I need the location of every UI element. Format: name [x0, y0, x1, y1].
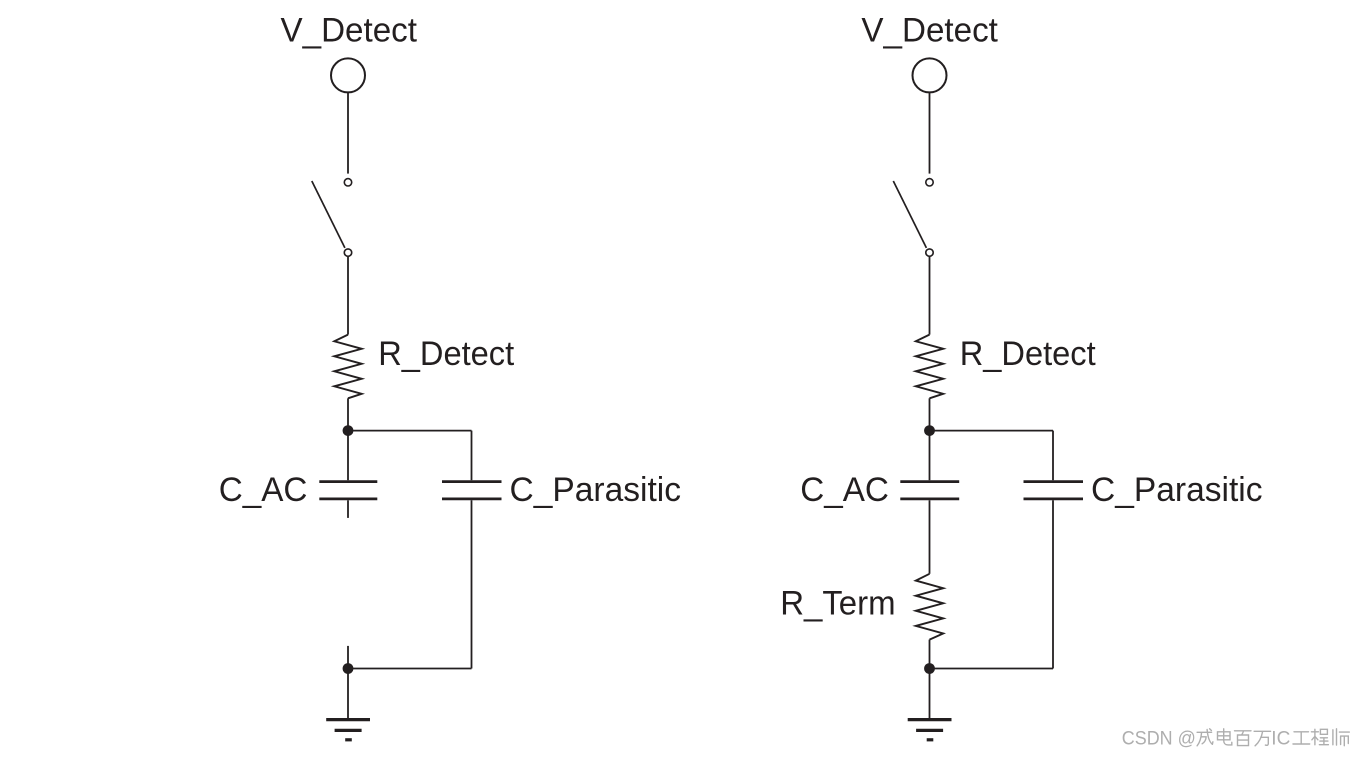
capacitor C_AC (right) [900, 480, 959, 483]
voltage source terminal circle (right) [913, 58, 947, 92]
wire C_AC to R_Term (right) [929, 500, 931, 574]
wire parasitic branch down, vertical (left) [471, 500, 473, 668]
wire switch to resistor (left) [347, 257, 349, 335]
svg-text:C_Parasitic: C_Parasitic [510, 471, 682, 509]
glyph gong1 [1293, 732, 1310, 744]
capacitor C_Parasitic (right) [1024, 480, 1084, 483]
ground (left) [326, 720, 370, 740]
wire bottom horizontal (left) [348, 668, 472, 670]
wire parasitic branch down, vertical (right) [1052, 500, 1054, 668]
switch upper contact (left) [344, 179, 351, 186]
capacitor C_Parasitic (left) [442, 480, 502, 483]
switch upper contact (right) [926, 179, 933, 186]
wire node down to C_AC (left) [347, 431, 349, 481]
wire stub below C_AC (left) [347, 500, 349, 518]
svg-text:C_Parasitic: C_Parasitic [1091, 471, 1263, 509]
ground (right) [908, 720, 952, 740]
voltage source terminal circle (left) [331, 58, 365, 92]
resistor R_Detect (left) [334, 335, 361, 399]
switch lower contact (left) [344, 249, 351, 256]
junction dot bottom (right) [924, 663, 935, 674]
glyph bai3 [1235, 731, 1252, 746]
svg-text:C_AC: C_AC [219, 471, 308, 509]
resistor R_Term (right) [916, 574, 943, 640]
wire node down to C_AC (right) [929, 431, 931, 481]
switch blade (right) [893, 181, 926, 248]
junction dot top (left) [343, 425, 354, 436]
svg-text:IC: IC [1271, 729, 1290, 750]
wire bottom horizontal (right) [930, 668, 1054, 670]
wire node to ground (right) [929, 669, 931, 720]
svg-text:V_Detect: V_Detect [281, 12, 418, 50]
glyph cheng2b [1311, 729, 1328, 745]
glyph wan4 [1254, 731, 1271, 746]
glyph dian4 [1218, 729, 1232, 745]
svg-text:R_Term: R_Term [780, 585, 895, 623]
switch lower contact (right) [926, 249, 933, 256]
svg-text:CSDN @: CSDN @ [1122, 729, 1196, 750]
wire terminal to switch (right) [929, 93, 931, 174]
resistor R_Detect (right) [916, 335, 943, 399]
wire R_Term to bottom node (right) [929, 640, 931, 669]
wire node to parasitic branch, horizontal (right) [930, 430, 1054, 432]
wire stub above bottom node (left) [347, 646, 349, 669]
watermark CJK glyphs (drawn) [1197, 729, 1349, 746]
wire resistor to node (right) [929, 398, 931, 431]
svg-text:R_Detect: R_Detect [960, 335, 1097, 373]
wire terminal to switch (left) [347, 93, 349, 174]
wire parasitic branch down to cap (right) [1052, 431, 1054, 481]
junction dot top (right) [924, 425, 935, 436]
junction dot bottom (left) [343, 663, 354, 674]
svg-text:R_Detect: R_Detect [378, 335, 515, 373]
svg-text:V_Detect: V_Detect [861, 12, 998, 50]
wire parasitic branch down to cap (left) [471, 431, 473, 481]
svg-text:C_AC: C_AC [800, 471, 889, 509]
capacitor C_AC (left) [319, 480, 377, 483]
switch blade (left) [312, 181, 345, 248]
wire resistor to node (left) [347, 398, 349, 431]
glyph shi1 [1333, 729, 1349, 746]
wire node to ground (left) [347, 669, 349, 720]
glyph cheng2 [1197, 729, 1213, 746]
wire node to parasitic branch, horizontal (left) [348, 430, 472, 432]
wire switch to resistor (right) [929, 257, 931, 335]
